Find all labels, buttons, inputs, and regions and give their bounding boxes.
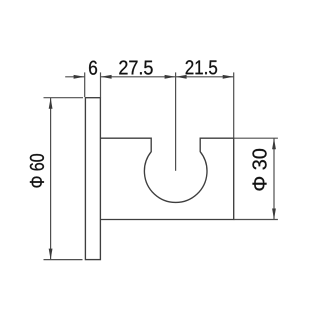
dim text dia 60 (rotated) — [30, 154, 44, 187]
arrowhead, dim 21.5 left (pointing left) — [176, 75, 187, 79]
dia 30 top extension line — [234, 137, 278, 139]
top dimension line spanning dims 27.5 and 21.5 — [101, 76, 234, 78]
arrowhead, dim 27.5 right (pointing right) — [165, 75, 176, 79]
flange plate outline (wall plate, 6 mm thick, dia 60) — [85, 98, 100, 260]
dim text 27.5 — [119, 60, 152, 74]
extension line at left face of flange (for dim 6) — [84, 72, 86, 97]
extension line at right face of flange (for dims 6 / 27.5) — [100, 72, 102, 97]
arrowhead, dia 60 bottom (pointing down) — [49, 249, 53, 260]
centre line of cradle circle (for dims 27.5 / 21.5) — [175, 72, 177, 170]
dia 30 dimension line — [273, 138, 275, 219]
arrowhead, dim 21.5 right (pointing right) — [223, 75, 234, 79]
dia 60 dimension line — [50, 98, 52, 260]
holder arm outline with C-shaped cradle cutout — [100, 138, 233, 219]
dim text 21.5 — [186, 60, 217, 74]
extension line at right end of arm (for dim 21.5) — [233, 72, 235, 137]
arrowhead, dia 30 top (pointing up) — [272, 138, 276, 149]
arrowhead, dim 6 left (pointing right) — [74, 75, 85, 79]
top dimension line, left leader of dim 6 — [65, 76, 84, 78]
dia 60 top extension line — [44, 97, 84, 99]
arrowhead, dia 60 top (pointing up) — [49, 98, 53, 109]
dim text 6 — [89, 61, 97, 75]
dia 30 bottom extension line — [234, 219, 278, 221]
dia 60 bottom extension line — [44, 259, 83, 261]
dim text dia 30 (rotated) — [252, 149, 266, 191]
arrowhead, dia 30 bottom (pointing down) — [272, 209, 276, 220]
arrowhead, dim 6 right / dim 27.5 left (pointing left) — [101, 75, 112, 79]
